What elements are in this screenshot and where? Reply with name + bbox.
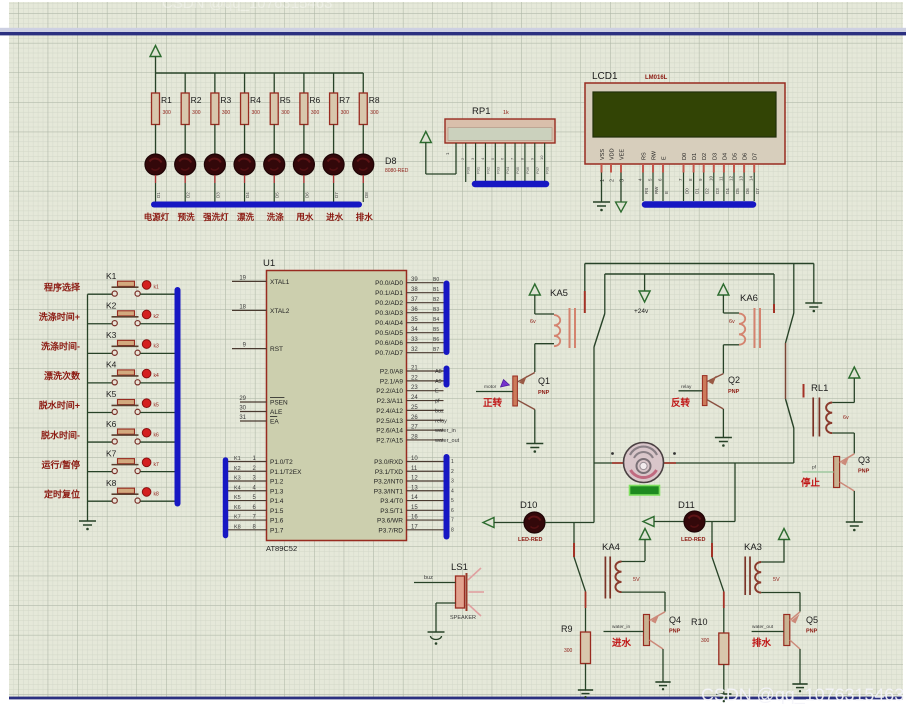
U1 pin 31 EA bbox=[239, 415, 279, 426]
svg-text:P0.3/AD3: P0.3/AD3 bbox=[375, 310, 403, 317]
svg-text:AT89C52: AT89C52 bbox=[266, 544, 297, 553]
svg-text:P06: P06 bbox=[525, 166, 530, 174]
ground Q1 bbox=[526, 444, 543, 453]
svg-text:D5: D5 bbox=[735, 188, 740, 194]
svg-text:D10: D10 bbox=[520, 500, 537, 511]
wire motor right bbox=[664, 462, 794, 464]
svg-text:P0.5/AD5: P0.5/AD5 bbox=[375, 330, 403, 337]
svg-text:洗涤: 洗涤 bbox=[267, 212, 285, 222]
svg-text:K8: K8 bbox=[106, 478, 117, 488]
svg-text:定时复位: 定时复位 bbox=[43, 488, 80, 499]
motor state green box bbox=[630, 486, 660, 496]
wire Q5 base bbox=[752, 631, 784, 633]
svg-text:P3.5/T1: P3.5/T1 bbox=[380, 508, 403, 515]
svg-text:K8: K8 bbox=[234, 524, 241, 530]
LED D10 bbox=[518, 512, 545, 543]
svg-text:300: 300 bbox=[341, 110, 350, 116]
label button K4 bbox=[44, 370, 81, 381]
svg-text:D0: D0 bbox=[685, 188, 690, 194]
LCD pin 6 wire bbox=[658, 173, 670, 202]
svg-text:P1.0/T2: P1.0/T2 bbox=[270, 459, 293, 466]
relay KA5 bbox=[530, 288, 575, 348]
svg-text:RW: RW bbox=[654, 186, 659, 194]
svg-text:LED-RED: LED-RED bbox=[518, 537, 542, 543]
svg-text:P00: P00 bbox=[466, 166, 471, 174]
motor bbox=[624, 443, 664, 483]
svg-text:21: 21 bbox=[411, 366, 418, 372]
svg-text:10: 10 bbox=[539, 155, 544, 160]
push button K4 bbox=[88, 360, 176, 385]
resistor R3 bbox=[211, 73, 232, 154]
U1 pin 33 P0.6/AD6 bbox=[375, 337, 443, 347]
svg-text:water_out: water_out bbox=[434, 438, 460, 444]
LED D1 of D8 array bbox=[145, 154, 166, 202]
svg-text:排水: 排水 bbox=[752, 637, 772, 649]
svg-text:R7: R7 bbox=[339, 95, 350, 105]
U1 pin 24 P2.3/A11 bbox=[377, 395, 444, 405]
relay KA4 label bbox=[602, 542, 620, 553]
svg-text:运行/暂停: 运行/暂停 bbox=[41, 459, 80, 470]
svg-text:12: 12 bbox=[729, 175, 734, 181]
ground Q5 bbox=[792, 684, 807, 692]
watermark CSDN bbox=[701, 685, 904, 706]
svg-text:排水: 排水 bbox=[356, 212, 374, 222]
svg-text:B3: B3 bbox=[433, 307, 439, 313]
svg-text:300: 300 bbox=[311, 110, 320, 116]
svg-text:D2: D2 bbox=[702, 153, 708, 160]
label water out bbox=[752, 637, 772, 649]
label stop bbox=[801, 477, 821, 489]
wire LCD VEE down bbox=[620, 173, 622, 203]
RP1 pin 7 wire bbox=[510, 143, 521, 182]
relay RL1 bbox=[813, 398, 854, 437]
transistor Q5 bbox=[784, 612, 818, 649]
wire D11 right bbox=[705, 521, 735, 523]
LCD pin 2 bbox=[610, 179, 616, 182]
LED D10 label bbox=[520, 500, 537, 511]
power arrow KA5 bbox=[529, 284, 540, 314]
svg-text:D5: D5 bbox=[733, 153, 739, 160]
U1 pin 5 P1.4 bbox=[228, 495, 284, 505]
power arrow RL1 bbox=[849, 367, 860, 403]
svg-text:D4: D4 bbox=[722, 153, 728, 160]
svg-text:16: 16 bbox=[411, 515, 418, 521]
IC U1 label bbox=[263, 258, 275, 269]
LED D7 of D8 array bbox=[323, 154, 344, 202]
LCD pin 12 wire bbox=[729, 173, 741, 202]
svg-text:PNP: PNP bbox=[728, 389, 740, 395]
svg-text:K5: K5 bbox=[106, 389, 117, 399]
svg-text:Q3: Q3 bbox=[858, 455, 870, 465]
svg-text:漂洗次数: 漂洗次数 bbox=[44, 370, 81, 381]
LCD pin 7 wire bbox=[678, 173, 690, 202]
LED D5 of D8 array bbox=[264, 154, 285, 202]
window top edge line bbox=[0, 28, 906, 36]
svg-text:P1.4: P1.4 bbox=[270, 498, 284, 505]
svg-text:R8: R8 bbox=[369, 95, 380, 105]
svg-text:P2.1/A9: P2.1/A9 bbox=[380, 378, 404, 385]
svg-text:R10: R10 bbox=[691, 617, 708, 627]
svg-text:D4: D4 bbox=[245, 192, 250, 198]
resistor R9 bbox=[561, 624, 591, 690]
U1 pin 27 P2.6/A14 bbox=[376, 425, 456, 435]
svg-text:28: 28 bbox=[411, 434, 418, 440]
svg-text:29: 29 bbox=[239, 396, 246, 402]
ground R10 bbox=[716, 694, 731, 702]
U1 pin 6 P1.5 bbox=[228, 505, 284, 515]
svg-text:B4: B4 bbox=[433, 317, 439, 323]
svg-text:15: 15 bbox=[411, 505, 418, 511]
relay contact RL1 mark bbox=[803, 384, 805, 398]
svg-text:24: 24 bbox=[411, 395, 418, 401]
label buz net bbox=[424, 575, 433, 581]
svg-text:R4: R4 bbox=[250, 95, 261, 105]
transistor Q4 bbox=[644, 612, 682, 649]
bus LCD data bus bbox=[645, 201, 753, 208]
ground LS1 bbox=[428, 632, 445, 645]
svg-text:停止: 停止 bbox=[801, 477, 821, 489]
svg-text:buz: buz bbox=[424, 575, 433, 581]
svg-text:relay: relay bbox=[435, 418, 447, 424]
bus U1 P2 bus bbox=[444, 369, 450, 385]
U1 pin 17 P3.7/RD bbox=[378, 524, 454, 534]
resistor R5 bbox=[270, 73, 291, 154]
svg-text:P3.4/T0: P3.4/T0 bbox=[380, 498, 403, 505]
svg-text:K5: K5 bbox=[234, 495, 241, 501]
svg-text:13: 13 bbox=[411, 485, 418, 491]
svg-text:300: 300 bbox=[564, 648, 573, 654]
svg-text:电源灯: 电源灯 bbox=[144, 212, 170, 222]
svg-text:R2: R2 bbox=[191, 95, 202, 105]
svg-text:P1.7: P1.7 bbox=[270, 527, 284, 534]
svg-text:P3.3/INT1: P3.3/INT1 bbox=[374, 488, 404, 495]
wire KA5 to Q1 collector bbox=[534, 344, 536, 372]
svg-text:强洗灯: 强洗灯 bbox=[203, 212, 229, 222]
svg-text:5V: 5V bbox=[773, 577, 780, 583]
svg-text:KA4: KA4 bbox=[602, 542, 620, 553]
U1 pin 26 P2.5/A13 bbox=[376, 415, 447, 425]
push button K5 bbox=[88, 389, 176, 414]
svg-text:LM016L: LM016L bbox=[645, 75, 668, 81]
wire LCD VSS to ground bbox=[601, 173, 603, 203]
LED D6 of D8 array bbox=[293, 154, 314, 202]
U1 pin 16 P3.6/WR bbox=[377, 515, 454, 525]
RP1 pin 10 wire bbox=[539, 143, 550, 182]
svg-text:XTAL2: XTAL2 bbox=[270, 308, 290, 315]
U1 pin 23 P2.2/A10 bbox=[376, 385, 443, 395]
svg-text:26: 26 bbox=[411, 415, 418, 421]
U1 pin 21 P2.0/A8 bbox=[380, 366, 444, 376]
svg-text:39: 39 bbox=[411, 277, 418, 283]
RP1 pin 9 wire bbox=[529, 143, 540, 182]
U1 pin 25 P2.4/A12 bbox=[376, 405, 444, 415]
svg-text:P04: P04 bbox=[505, 166, 510, 174]
ground LCD bbox=[593, 202, 610, 211]
LED D3 of D8 array bbox=[204, 154, 225, 202]
svg-text:EA: EA bbox=[270, 419, 279, 426]
svg-text:22: 22 bbox=[411, 375, 418, 381]
U1 pin 11 P3.1/TXD bbox=[375, 466, 454, 476]
svg-text:P2.0/A8: P2.0/A8 bbox=[380, 369, 404, 376]
U1 pin 39 P0.0/AD0 bbox=[375, 277, 443, 287]
U1 pin 38 P0.1/AD1 bbox=[375, 287, 443, 297]
svg-text:KA5: KA5 bbox=[550, 288, 568, 299]
svg-text:P2.4/A12: P2.4/A12 bbox=[376, 408, 403, 415]
wire LS1 top bbox=[414, 582, 456, 584]
svg-text:R6: R6 bbox=[309, 95, 320, 105]
svg-text:RS: RS bbox=[642, 152, 648, 160]
svg-text:A8: A8 bbox=[435, 369, 442, 375]
U1 pin 12 P3.2/INT0 bbox=[374, 476, 454, 486]
svg-text:正转: 正转 bbox=[483, 397, 503, 409]
wire KA5 contact to motor bbox=[593, 347, 595, 463]
LCD pin 10 wire bbox=[708, 173, 720, 202]
svg-text:P2.5/A13: P2.5/A13 bbox=[376, 418, 403, 425]
svg-text:10: 10 bbox=[708, 175, 713, 181]
resistor pack RP1 bbox=[445, 106, 555, 143]
svg-text:Q4: Q4 bbox=[669, 615, 681, 625]
svg-text:D4: D4 bbox=[725, 188, 730, 194]
push button K6 bbox=[88, 419, 176, 444]
svg-text:KA6: KA6 bbox=[740, 293, 758, 304]
svg-text:预洗: 预洗 bbox=[178, 212, 196, 222]
svg-text:A9: A9 bbox=[435, 379, 442, 385]
svg-text:k4: k4 bbox=[154, 373, 160, 379]
speaker LS1 label bbox=[451, 562, 468, 573]
svg-text:B5: B5 bbox=[433, 327, 439, 333]
svg-text:6v: 6v bbox=[729, 319, 735, 325]
svg-text:D8: D8 bbox=[364, 192, 369, 198]
svg-text:B0: B0 bbox=[433, 277, 439, 283]
RP1 pin 5 wire bbox=[490, 143, 501, 182]
bus RP1 bus bbox=[475, 181, 546, 188]
label D8 bbox=[385, 156, 409, 174]
resistor R8 bbox=[359, 73, 380, 154]
resistor R4 bbox=[241, 73, 262, 154]
svg-text:27: 27 bbox=[411, 425, 418, 431]
U1 pin 32 P0.7/AD7 bbox=[375, 347, 443, 357]
svg-text:B2: B2 bbox=[433, 297, 439, 303]
relay contact KA5 bbox=[585, 264, 605, 348]
wire RL1 to Q3 emitter bbox=[853, 433, 855, 454]
svg-text:P0.6/AD6: P0.6/AD6 bbox=[375, 340, 403, 347]
LCD pin 5 wire bbox=[648, 173, 660, 202]
bus LED anode bus bbox=[154, 202, 359, 208]
RP1 pin 4 wire bbox=[480, 143, 491, 182]
label Q4 base net bbox=[612, 624, 630, 630]
svg-text:RW: RW bbox=[652, 150, 658, 160]
svg-text:P2.3/A11: P2.3/A11 bbox=[377, 398, 404, 405]
svg-text:Q1: Q1 bbox=[538, 376, 550, 386]
wire button common vertical bbox=[87, 294, 89, 520]
wire Q2 base bbox=[679, 390, 703, 392]
svg-text:K6: K6 bbox=[234, 505, 241, 511]
svg-text:洗涤时间-: 洗涤时间- bbox=[41, 341, 80, 352]
LCD pin 11 wire bbox=[718, 173, 730, 202]
svg-text:P2.2/A10: P2.2/A10 bbox=[376, 388, 403, 395]
svg-text:pf: pf bbox=[435, 399, 440, 405]
wire Q3 base bbox=[802, 471, 833, 473]
svg-text:Q2: Q2 bbox=[728, 375, 740, 385]
svg-text:relay: relay bbox=[681, 384, 692, 390]
wire Q4 collector to ground bbox=[662, 649, 664, 682]
wire D10 left bbox=[494, 522, 524, 524]
svg-text:5: 5 bbox=[451, 498, 454, 504]
label button K5 bbox=[39, 400, 80, 411]
svg-text:P1.6: P1.6 bbox=[270, 518, 284, 525]
wire KA6 contact to motor bbox=[793, 428, 795, 463]
svg-text:P02: P02 bbox=[485, 166, 490, 174]
label indicator 6 bbox=[296, 212, 314, 222]
LED D11 label bbox=[678, 500, 695, 511]
wire motor left bbox=[594, 462, 623, 464]
svg-text:K4: K4 bbox=[234, 485, 241, 491]
svg-text:P1.1/T2EX: P1.1/T2EX bbox=[270, 469, 302, 476]
svg-text:8: 8 bbox=[451, 527, 454, 533]
svg-text:water_out: water_out bbox=[752, 624, 774, 630]
svg-text:10: 10 bbox=[411, 456, 418, 462]
svg-text:E: E bbox=[435, 389, 439, 395]
svg-text:300: 300 bbox=[252, 110, 261, 116]
label button K1 bbox=[44, 281, 81, 292]
svg-text:k8: k8 bbox=[154, 491, 160, 497]
label indicator 5 bbox=[267, 212, 285, 222]
resistor R2 bbox=[181, 73, 202, 154]
label indicator 4 bbox=[237, 212, 255, 222]
wire Q2 emitter to ground bbox=[722, 409, 724, 438]
relay KA3 bbox=[745, 557, 800, 596]
svg-text:P3.0/RXD: P3.0/RXD bbox=[374, 459, 403, 466]
push button K1 bbox=[88, 271, 176, 296]
U1 pin 19 XTAL1 bbox=[232, 275, 290, 286]
wire KA4 to Q4 emitter bbox=[664, 592, 666, 612]
svg-text:D2: D2 bbox=[705, 188, 710, 194]
svg-text:K3: K3 bbox=[106, 330, 117, 340]
resistor R10 bbox=[691, 617, 729, 694]
svg-text:12: 12 bbox=[411, 476, 418, 482]
power arrow KA4 bbox=[640, 529, 651, 562]
LCD pin 13 wire bbox=[739, 173, 751, 202]
U1 pin 30 ALE bbox=[239, 406, 283, 417]
svg-text:脱水时间-: 脱水时间- bbox=[41, 429, 80, 440]
svg-text:LED-RED: LED-RED bbox=[681, 537, 705, 543]
bus U1 P0 bus bbox=[444, 284, 450, 353]
svg-text:17: 17 bbox=[411, 524, 418, 530]
svg-text:300: 300 bbox=[370, 110, 379, 116]
power arrow RP1 bbox=[420, 132, 431, 175]
svg-text:D1: D1 bbox=[692, 153, 698, 160]
label Q3 base net bbox=[812, 465, 817, 471]
svg-text:RS: RS bbox=[644, 188, 649, 194]
LCD pin 9 wire bbox=[698, 173, 710, 202]
LCD pin 3 bbox=[620, 179, 626, 182]
relay KA4 bbox=[605, 557, 665, 599]
svg-text:进水: 进水 bbox=[612, 637, 632, 649]
svg-text:pf: pf bbox=[812, 465, 817, 471]
bus entry marker Q1 base bbox=[484, 380, 510, 391]
svg-text:R5: R5 bbox=[280, 95, 291, 105]
label indicator 3 bbox=[203, 212, 229, 222]
svg-text:D8: D8 bbox=[385, 156, 397, 166]
wire KA3 to Q5 emitter bbox=[799, 593, 801, 612]
wire LS1 bottom bbox=[436, 603, 456, 632]
svg-text:RST: RST bbox=[270, 346, 283, 353]
label button K2 bbox=[39, 311, 80, 322]
label indicator 8 bbox=[356, 212, 374, 222]
wire D10 riser bbox=[593, 463, 595, 523]
push button K8 bbox=[88, 478, 176, 503]
wire D10 right bbox=[545, 522, 594, 524]
bus U1 P3 bus bbox=[444, 457, 450, 537]
svg-text:B6: B6 bbox=[433, 337, 439, 343]
svg-text:11: 11 bbox=[718, 176, 723, 181]
svg-text:RP1: RP1 bbox=[472, 106, 490, 117]
svg-text:VDD: VDD bbox=[610, 148, 616, 160]
svg-text:PNP: PNP bbox=[669, 629, 681, 635]
svg-text:D1: D1 bbox=[695, 188, 700, 194]
wire inner rail bbox=[605, 273, 774, 275]
ground Q2 bbox=[715, 438, 732, 447]
wire Q1 emitter to ground bbox=[534, 410, 536, 444]
svg-text:D6: D6 bbox=[743, 153, 749, 160]
svg-text:XTAL1: XTAL1 bbox=[270, 279, 290, 286]
svg-text:water_in: water_in bbox=[434, 428, 456, 434]
svg-text:P0.0/AD0: P0.0/AD0 bbox=[375, 280, 403, 287]
LCD pin 14 wire bbox=[749, 173, 761, 202]
svg-text:300: 300 bbox=[281, 110, 290, 116]
power +24v terminal bbox=[634, 274, 650, 315]
svg-text:7: 7 bbox=[451, 518, 454, 524]
IC U1 body bbox=[267, 271, 407, 541]
svg-text:K7: K7 bbox=[106, 448, 117, 458]
svg-text:VEE: VEE bbox=[620, 149, 626, 160]
svg-text:5V: 5V bbox=[633, 577, 640, 583]
U1 pin 9 RST bbox=[232, 343, 283, 354]
svg-text:P3.1/TXD: P3.1/TXD bbox=[375, 469, 403, 476]
svg-text:P1.3: P1.3 bbox=[270, 488, 284, 495]
svg-text:23: 23 bbox=[411, 385, 418, 391]
svg-text:D6: D6 bbox=[745, 188, 750, 194]
U1 pin 14 P3.4/T0 bbox=[380, 495, 454, 505]
svg-text:18: 18 bbox=[239, 304, 246, 310]
terminal arrow D10 bbox=[483, 518, 494, 528]
push button K7 bbox=[88, 448, 176, 473]
terminal arrow D11 bbox=[643, 517, 654, 527]
svg-text:D5: D5 bbox=[275, 192, 280, 198]
RP1 pin 3 wire bbox=[470, 143, 481, 182]
svg-text:PNP: PNP bbox=[858, 469, 870, 475]
svg-text:11: 11 bbox=[411, 466, 418, 472]
bus U1 P1 bus bbox=[223, 460, 229, 536]
svg-text:6v: 6v bbox=[530, 319, 536, 325]
svg-text:water_in: water_in bbox=[612, 624, 630, 630]
LED D4 of D8 array bbox=[234, 154, 255, 202]
svg-text:300: 300 bbox=[701, 638, 710, 644]
terminal down-arrow LCD VEE bbox=[616, 202, 627, 212]
U1 pin 28 P2.7/A15 bbox=[376, 434, 459, 444]
svg-text:4: 4 bbox=[451, 488, 454, 494]
svg-text:1k: 1k bbox=[503, 110, 509, 116]
svg-text:洗涤时间+: 洗涤时间+ bbox=[39, 311, 80, 322]
label forward bbox=[483, 397, 503, 409]
svg-text:甩水: 甩水 bbox=[296, 212, 314, 222]
LED D11 bbox=[681, 511, 705, 543]
LED D8 of D8 array bbox=[353, 154, 374, 202]
U1 pin 37 P0.2/AD2 bbox=[375, 297, 443, 307]
wire D11 riser bbox=[734, 463, 736, 522]
U1 pin 15 P3.5/T1 bbox=[380, 505, 454, 515]
U1 pin 7 P1.6 bbox=[228, 515, 284, 525]
